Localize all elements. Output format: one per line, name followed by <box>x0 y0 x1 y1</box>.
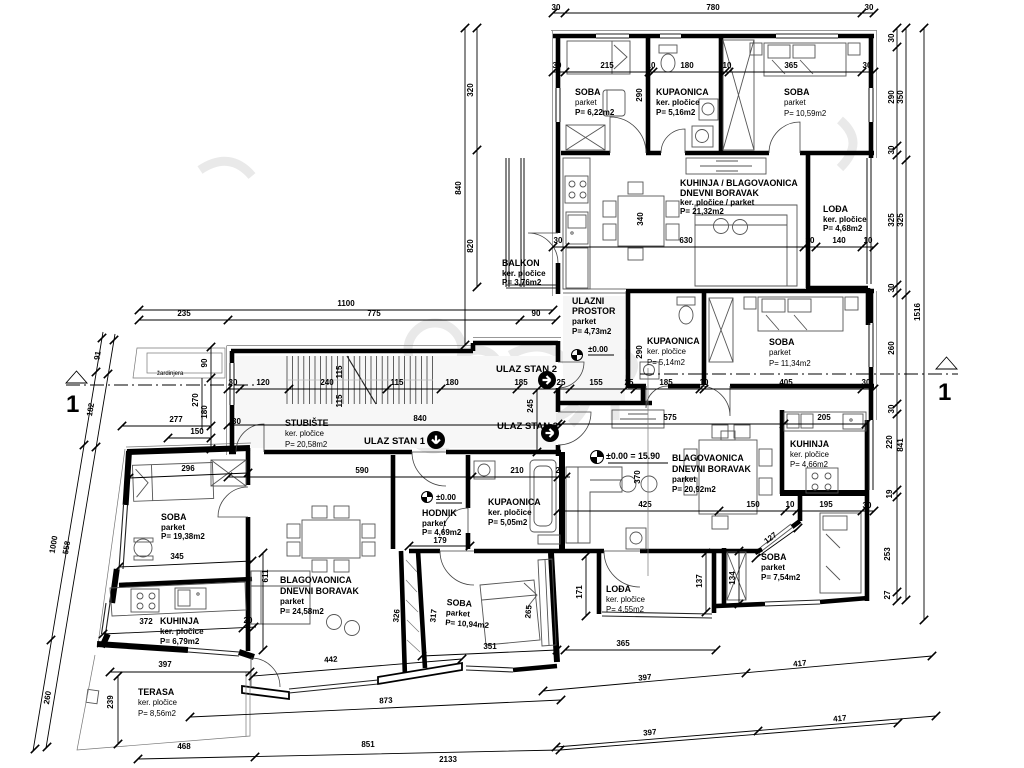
svg-text:parket: parket <box>572 317 596 326</box>
svg-text:DNEVNI BORAVAK: DNEVNI BORAVAK <box>680 188 759 198</box>
svg-text:180: 180 <box>445 378 459 387</box>
sideboard ap2 <box>686 158 766 174</box>
svg-text:290: 290 <box>635 88 644 102</box>
planter box <box>86 689 99 703</box>
svg-text:HODNIK: HODNIK <box>422 508 457 518</box>
svg-text:parket: parket <box>769 348 792 357</box>
svg-text:290: 290 <box>887 90 896 104</box>
wall outline thin stairwell <box>227 338 562 456</box>
level mark hodnik <box>422 492 433 503</box>
svg-text:397: 397 <box>643 727 658 737</box>
svg-text:KUPAONICA: KUPAONICA <box>656 87 709 97</box>
dim 239 terasa <box>117 676 119 744</box>
stair break line <box>347 356 376 404</box>
kitchen ap2 <box>563 158 590 289</box>
door hodnik-soba <box>440 551 474 585</box>
wall ap1 soba1 east <box>246 448 251 651</box>
dim 590+210+20 <box>228 476 570 478</box>
svg-text:P= 4,68m2: P= 4,68m2 <box>823 224 863 233</box>
sofa ap2 <box>695 205 797 286</box>
dim 345 <box>119 561 252 567</box>
svg-text:ker. pločice: ker. pločice <box>488 508 532 517</box>
svg-text:BLAGOVAONICA: BLAGOVAONICA <box>280 575 352 585</box>
bed soba1 ap2 <box>567 41 630 74</box>
svg-text:120: 120 <box>256 378 270 387</box>
dim chain y72 <box>553 71 874 73</box>
terasa outline <box>77 655 250 750</box>
dim 171 loggia <box>585 556 587 616</box>
wall ap2 top <box>553 34 874 39</box>
dim 296 <box>129 473 248 478</box>
svg-text:LOĐA: LOĐA <box>823 204 849 214</box>
floor tint corridor <box>563 296 625 401</box>
svg-text:134: 134 <box>728 571 737 585</box>
svg-text:325: 325 <box>887 213 896 227</box>
door soba4 diag leaf <box>761 524 793 550</box>
svg-text:P= 6,79m2: P= 6,79m2 <box>160 637 200 646</box>
kitchen ap1 <box>110 582 246 616</box>
svg-text:P= 6,22m2: P= 6,22m2 <box>575 108 615 117</box>
svg-text:STUBIŠTE: STUBIŠTE <box>285 417 329 428</box>
wall slab south soba2 <box>378 663 462 684</box>
sofa blag1 <box>251 571 360 636</box>
closet hall ap2 <box>723 40 754 150</box>
closet ap3 <box>709 298 733 362</box>
svg-text:SOBA: SOBA <box>446 597 473 609</box>
svg-text:780: 780 <box>706 3 720 12</box>
dim 277 <box>122 425 211 427</box>
dim 365 <box>565 649 716 651</box>
svg-text:P= 24,58m2: P= 24,58m2 <box>280 607 324 616</box>
property line <box>33 332 115 751</box>
closet soba1 ap1 <box>211 460 246 486</box>
door entrance stairwell <box>236 424 264 452</box>
washer ap2 <box>692 126 713 147</box>
svg-text:P= 4,73m2: P= 4,73m2 <box>572 327 612 336</box>
svg-text:155: 155 <box>589 378 603 387</box>
dim chain y511 <box>558 510 874 512</box>
svg-text:30: 30 <box>863 61 872 70</box>
rail ap2 loggia east <box>867 158 871 284</box>
table blag1 <box>287 506 375 572</box>
wall ap3 top <box>626 289 874 294</box>
svg-text:1516: 1516 <box>913 303 922 321</box>
svg-text:30: 30 <box>554 236 563 245</box>
svg-text:ker. pločice: ker. pločice <box>647 347 686 356</box>
svg-text:397: 397 <box>158 660 172 669</box>
dim 468+851+2133 <box>138 723 898 759</box>
svg-text:325: 325 <box>896 213 905 227</box>
svg-text:417: 417 <box>833 713 848 723</box>
section mark right <box>936 357 957 369</box>
wall ap3 diagonal <box>755 494 800 553</box>
svg-text:P= 4,55m2: P= 4,55m2 <box>606 605 644 614</box>
svg-text:180: 180 <box>680 61 694 70</box>
svg-text:ker. pločice: ker. pločice <box>502 269 546 278</box>
svg-text:ker. pločice: ker. pločice <box>285 429 324 438</box>
svg-text:SOBA: SOBA <box>784 87 810 97</box>
wall blag1/hodnik <box>391 455 396 549</box>
svg-text:30: 30 <box>232 417 241 426</box>
svg-text:350: 350 <box>896 90 905 104</box>
wall ap2 soba1/kupaonica <box>646 36 651 153</box>
svg-text:ker. pločice / parket: ker. pločice / parket <box>680 198 755 207</box>
ulaz stan1 arrow <box>427 431 445 449</box>
svg-text:parket: parket <box>280 597 304 606</box>
svg-text:30: 30 <box>887 283 896 292</box>
svg-text:30: 30 <box>887 404 896 413</box>
svg-text:KUPAONICA: KUPAONICA <box>647 336 700 346</box>
svg-text:20: 20 <box>556 466 565 475</box>
svg-text:SOBA: SOBA <box>769 337 795 347</box>
svg-text:417: 417 <box>793 658 808 668</box>
closet soba4 ap3 <box>727 552 746 600</box>
svg-text:1: 1 <box>66 391 79 418</box>
table ap2 <box>603 182 679 260</box>
svg-text:P= 19,38m2: P= 19,38m2 <box>161 532 205 541</box>
door hodnik-kupaonica <box>443 508 468 533</box>
door soba2 ap2 <box>769 122 800 153</box>
window ap3 right blag <box>869 420 873 490</box>
wall ap3 right lower <box>865 420 870 601</box>
svg-text:179: 179 <box>433 536 447 545</box>
svg-text:10: 10 <box>647 61 656 70</box>
svg-text:P= 10,59m2: P= 10,59m2 <box>784 109 826 118</box>
dim 1100 <box>139 309 553 311</box>
svg-text:220: 220 <box>885 435 894 449</box>
nightstand ap3 <box>744 297 858 310</box>
dim 840 stan1 <box>228 424 561 426</box>
jardinjera <box>133 348 225 378</box>
svg-text:150: 150 <box>746 500 760 509</box>
bed soba4 ap3 <box>820 513 861 593</box>
window ap3 right soba <box>869 323 873 367</box>
wall ap1 kup east / blag3 west <box>559 452 565 551</box>
svg-text:90: 90 <box>200 358 209 367</box>
window ap3 soba south <box>765 600 820 606</box>
door loggia ap3 <box>604 551 640 587</box>
dim 442 <box>253 659 462 676</box>
svg-text:365: 365 <box>616 639 630 648</box>
svg-text:ker. pločice: ker. pločice <box>823 215 867 224</box>
svg-text:820: 820 <box>466 239 475 253</box>
dim right col chain <box>896 28 898 601</box>
window ap2 top soba1 <box>596 34 629 38</box>
opening ulazni-living <box>563 289 626 293</box>
sink kup1 <box>474 461 495 479</box>
svg-text:parket: parket <box>761 563 785 572</box>
svg-text:LOĐA: LOĐA <box>606 584 632 594</box>
svg-text:parket: parket <box>161 523 185 532</box>
bed soba3 ap3 <box>758 297 843 331</box>
sink ap3 <box>640 362 659 379</box>
svg-text:parket: parket <box>422 519 446 528</box>
closet soba2 ap1 <box>538 559 556 646</box>
wall hodnik-loggia long <box>409 549 758 554</box>
wall ap3 corridor south <box>558 386 652 403</box>
dim 397+417 upper <box>543 656 932 691</box>
svg-text:1100: 1100 <box>337 299 355 308</box>
svg-text:ker. pločice: ker. pločice <box>606 595 645 604</box>
wall blag1/soba double <box>401 551 425 678</box>
svg-text:775: 775 <box>367 309 381 318</box>
dim right col total 1516 <box>923 28 925 620</box>
svg-text:DNEVNI BORAVAK: DNEVNI BORAVAK <box>672 464 751 474</box>
svg-text:P= 7,54m2: P= 7,54m2 <box>761 573 801 582</box>
svg-text:1: 1 <box>938 379 951 406</box>
svg-text:345: 345 <box>170 552 184 561</box>
wall ap1 kitchen south <box>97 644 254 657</box>
wall ap3 south of bath/bedroom <box>628 384 874 389</box>
door kupaonica ap3 <box>646 386 668 408</box>
bed soba2 ap2 <box>764 43 846 76</box>
nightstand soba2 <box>750 43 860 55</box>
sofa ap3 <box>566 467 657 543</box>
svg-text:SOBA: SOBA <box>575 87 601 97</box>
dim 245 corridor <box>536 390 538 452</box>
svg-text:2133: 2133 <box>439 755 457 764</box>
svg-text:277: 277 <box>169 415 183 424</box>
svg-text:30: 30 <box>887 145 896 154</box>
svg-text:P= 5,14m2: P= 5,14m2 <box>647 358 685 367</box>
wall ap1 top <box>127 448 250 452</box>
svg-text:340: 340 <box>636 212 645 226</box>
svg-text:115: 115 <box>391 378 404 387</box>
dim right col mid <box>905 28 907 600</box>
door terasa <box>251 658 280 687</box>
washer ap3 <box>626 528 646 549</box>
wall ap3 soba south <box>716 598 868 606</box>
svg-text:90: 90 <box>532 309 541 318</box>
dim 351 <box>422 650 557 656</box>
stair edge <box>287 379 433 381</box>
svg-text:180: 180 <box>200 405 209 419</box>
wall stair east <box>556 341 561 456</box>
svg-text:KUPAONICA: KUPAONICA <box>488 497 541 507</box>
wc ap3 <box>677 297 695 324</box>
svg-text:873: 873 <box>379 696 393 706</box>
svg-text:30: 30 <box>863 501 872 510</box>
window ap1 kitchen south <box>188 648 239 656</box>
svg-text:P= 8,56m2: P= 8,56m2 <box>138 709 176 718</box>
watermark <box>200 120 853 449</box>
svg-text:10: 10 <box>786 500 795 509</box>
wc kup1 <box>538 535 560 544</box>
svg-text:10: 10 <box>723 61 732 70</box>
svg-text:575: 575 <box>663 413 677 422</box>
wall stair west <box>230 351 235 452</box>
wall ap2 left <box>556 34 561 294</box>
svg-text:235: 235 <box>177 309 191 318</box>
svg-text:185: 185 <box>514 378 528 387</box>
dim 134 <box>738 551 740 604</box>
svg-text:841: 841 <box>896 438 905 452</box>
section mark left <box>66 371 87 383</box>
wall ap1 soba1/kitchen <box>119 579 252 585</box>
kitchen ap3 <box>784 412 866 493</box>
svg-text:žardinjera: žardinjera <box>157 371 184 377</box>
svg-text:265: 265 <box>523 604 533 619</box>
dim 372+20 <box>103 627 256 634</box>
wall ap3 kitchen west <box>780 410 785 494</box>
svg-text:parket: parket <box>784 98 807 107</box>
dim 150 <box>168 437 211 439</box>
svg-text:19: 19 <box>885 489 894 498</box>
dim top 30+780+30 <box>553 12 874 14</box>
svg-text:BLAGOVAONICA: BLAGOVAONICA <box>672 453 744 463</box>
wall stair bottom <box>229 450 561 455</box>
svg-text:P= 5,16m2: P= 5,16m2 <box>656 108 696 117</box>
svg-text:DNEVNI BORAVAK: DNEVNI BORAVAK <box>280 586 359 596</box>
svg-text:205: 205 <box>817 413 831 422</box>
svg-text:P= 11,34m2: P= 11,34m2 <box>769 359 811 368</box>
svg-text:±0.00: ±0.00 <box>436 493 457 502</box>
dim 127 diag <box>756 528 798 558</box>
svg-text:590: 590 <box>355 466 369 475</box>
dim 137 <box>705 553 707 612</box>
wall ap1 soba2 south <box>513 666 557 670</box>
door ulaz stan2 <box>558 362 584 388</box>
svg-text:240: 240 <box>320 378 334 387</box>
wall slab south blag1 <box>242 686 289 699</box>
svg-text:TERASA: TERASA <box>138 687 175 697</box>
rail ap3 loggia south <box>602 612 712 618</box>
svg-text:ker. pločice: ker. pločice <box>790 450 829 459</box>
wall ap1 west slanted <box>102 451 129 647</box>
svg-text:210: 210 <box>510 466 524 475</box>
wall ap2 mid horizontal <box>561 151 874 156</box>
svg-text:10: 10 <box>864 236 873 245</box>
dim 179 hodnik <box>409 545 470 547</box>
bed soba1 ap1 <box>132 463 213 502</box>
svg-text:320: 320 <box>466 83 475 97</box>
svg-text:20: 20 <box>244 616 253 625</box>
svg-text:27: 27 <box>883 590 892 599</box>
svg-text:25: 25 <box>625 378 634 387</box>
dim ap2 y247 <box>553 246 874 248</box>
armchair soba1 ap2 <box>603 90 625 116</box>
svg-text:290: 290 <box>635 345 644 359</box>
svg-text:370: 370 <box>633 470 642 484</box>
svg-text:351: 351 <box>483 642 497 651</box>
svg-text:840: 840 <box>413 414 427 423</box>
svg-text:P= 5,05m2: P= 5,05m2 <box>488 518 528 527</box>
svg-text:P= 21,32m2: P= 21,32m2 <box>680 207 724 216</box>
bed soba2 ap1 <box>480 580 540 645</box>
dim 397+417 lower <box>556 716 936 747</box>
svg-text:10: 10 <box>700 378 709 387</box>
wall ap2 right <box>869 34 874 158</box>
rail balkon <box>506 158 556 288</box>
wall outline thin ap2 <box>551 31 877 421</box>
svg-text:171: 171 <box>575 585 584 599</box>
svg-text:ker. pločice: ker. pločice <box>656 98 700 107</box>
wall ap3 kupaonica/soba <box>702 291 707 385</box>
svg-text:317: 317 <box>428 608 438 623</box>
room soba2 ap1 <box>445 597 491 630</box>
sink ap2 <box>699 99 718 120</box>
wall ap3 loggia right / soba west <box>714 548 724 613</box>
svg-text:611: 611 <box>261 569 270 582</box>
svg-text:468: 468 <box>177 742 191 751</box>
dim left col 840/320 <box>464 28 466 345</box>
svg-text:30: 30 <box>862 378 871 387</box>
dim main chain y389 <box>228 388 874 390</box>
wall ap2 loggia bottom <box>806 288 868 325</box>
floor tint stair landing <box>236 356 556 448</box>
svg-text:296: 296 <box>181 464 195 473</box>
svg-text:245: 245 <box>526 399 535 413</box>
sideboard ap3 <box>612 410 664 428</box>
svg-text:BALKON: BALKON <box>502 258 540 268</box>
level mark ulazni <box>572 350 583 361</box>
svg-text:30: 30 <box>229 378 238 387</box>
svg-text:442: 442 <box>324 655 338 665</box>
svg-text:KUHINJA / BLAGOVAONICA: KUHINJA / BLAGOVAONICA <box>680 178 798 188</box>
svg-text:P= 20,58m2: P= 20,58m2 <box>285 440 327 449</box>
svg-text:ker. pločice: ker. pločice <box>138 698 177 707</box>
svg-text:326: 326 <box>391 608 401 623</box>
wall ap3 kitchen south <box>780 490 867 496</box>
svg-text:30: 30 <box>865 3 874 12</box>
svg-text:P= 3,76m2: P= 3,76m2 <box>502 278 542 287</box>
svg-text:±0.00: ±0.00 <box>588 345 609 354</box>
wall hodnik/kup1 <box>466 455 471 549</box>
door soba1 ap1 <box>218 487 248 517</box>
wall ap2 kupaonica/closet <box>719 36 724 153</box>
svg-text:ULAZ STAN 1: ULAZ STAN 1 <box>364 436 426 447</box>
window ap1 west lower <box>102 603 111 634</box>
svg-text:±0.00 = 15.90: ±0.00 = 15.90 <box>606 451 660 461</box>
svg-text:260: 260 <box>887 341 896 355</box>
bathtub kup1 <box>530 460 556 532</box>
dim 397 terasa <box>110 671 250 673</box>
svg-text:372: 372 <box>139 617 153 626</box>
wall ap3 left <box>626 291 631 388</box>
window ap2 left <box>556 88 560 122</box>
door soba ap3 <box>700 386 730 416</box>
svg-text:P= 4,69m2: P= 4,69m2 <box>422 528 462 537</box>
window ap1 soba2 south <box>466 666 513 672</box>
door ulaz stan3 <box>558 412 591 445</box>
svg-text:30: 30 <box>552 3 561 12</box>
window band blag1 south <box>289 680 378 693</box>
svg-text:SOBA: SOBA <box>761 552 787 562</box>
wall ap3 right upper <box>869 291 874 420</box>
svg-text:253: 253 <box>883 547 892 561</box>
svg-text:KUHINJA: KUHINJA <box>160 616 200 626</box>
ulaz stan3 arrow <box>541 424 559 442</box>
svg-text:P= 20,92m2: P= 20,92m2 <box>672 485 716 494</box>
small table soba1 ap1 <box>134 538 153 560</box>
svg-text:239: 239 <box>106 695 115 709</box>
svg-text:397: 397 <box>638 672 653 682</box>
level mark blag3 <box>591 451 604 464</box>
svg-text:140: 140 <box>832 236 846 245</box>
window ap2 top soba2 <box>776 34 838 38</box>
window ap2 top kupaonica <box>660 34 681 38</box>
svg-text:parket: parket <box>575 98 598 107</box>
svg-text:parket: parket <box>672 475 696 484</box>
svg-text:ULAZNI: ULAZNI <box>572 296 604 306</box>
svg-text:115: 115 <box>335 365 344 378</box>
door soba1 ap2 <box>610 117 646 153</box>
svg-text:30: 30 <box>887 33 896 42</box>
dim 873 <box>190 700 561 717</box>
wall ap3 loggia west <box>597 553 602 614</box>
wall stair top <box>231 343 558 351</box>
svg-text:KUHINJA: KUHINJA <box>790 439 830 449</box>
